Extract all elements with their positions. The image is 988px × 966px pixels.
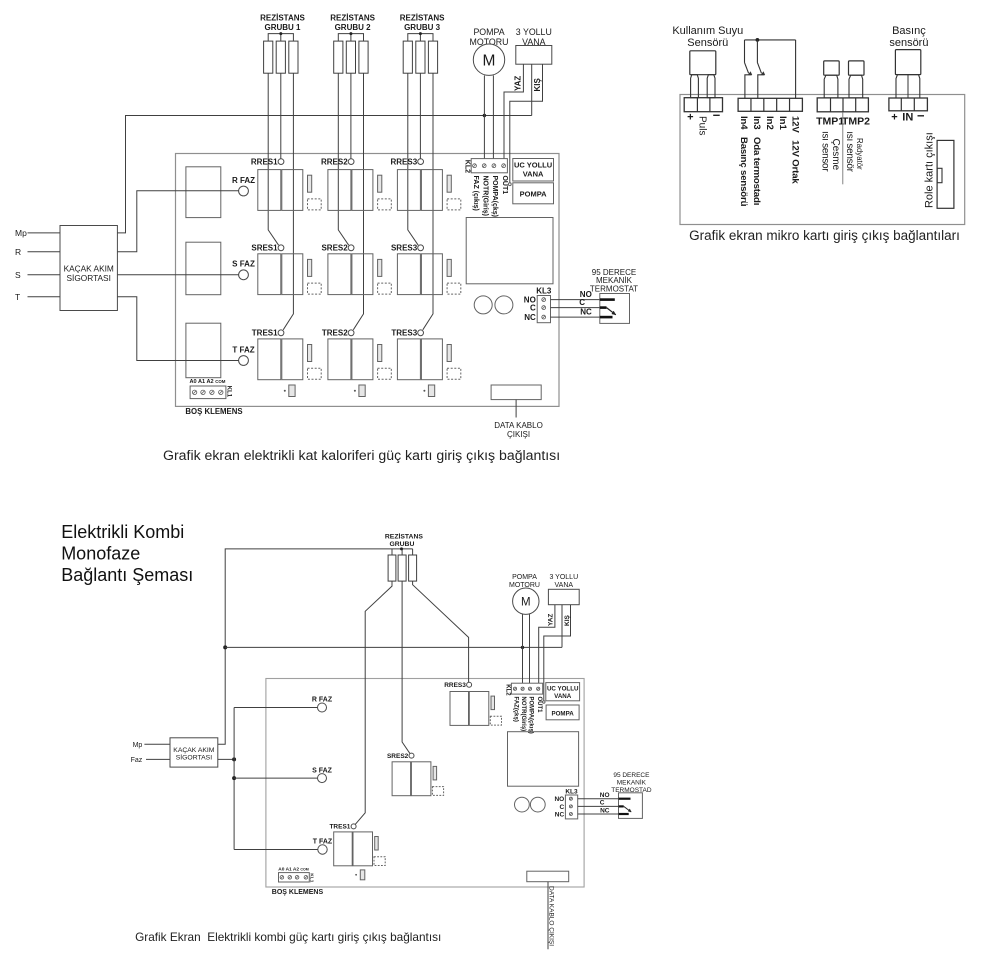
svg-text:YAZ: YAZ bbox=[547, 614, 554, 626]
diode component below TRES1 mono bbox=[360, 870, 365, 880]
connector TMP1 TMP2 bbox=[817, 98, 868, 112]
svg-text:REZİSTANS: REZİSTANS bbox=[400, 14, 445, 23]
terminal R FAZ mono bbox=[318, 703, 327, 712]
relay coil a bbox=[474, 296, 492, 314]
aux terminal mono bbox=[543, 701, 545, 703]
transformer block bbox=[466, 218, 553, 284]
terminal RRES2 bbox=[348, 159, 354, 165]
svg-text:GRUBU 3: GRUBU 3 bbox=[404, 23, 441, 32]
relay TRES2 block a bbox=[328, 339, 351, 380]
mono board outline bbox=[266, 679, 584, 888]
transformer block mono bbox=[508, 732, 579, 787]
relay box UC YOLLU VANA mono bbox=[546, 683, 580, 701]
svg-text:Faz: Faz bbox=[131, 757, 143, 764]
svg-text:NOTR(Giriş): NOTR(Giriş) bbox=[482, 176, 489, 216]
input contactor block R bbox=[186, 167, 221, 218]
svg-text:C: C bbox=[559, 804, 564, 811]
svg-text:SİGORTASI: SİGORTASI bbox=[66, 273, 110, 283]
wire KL3 C to thermostat bbox=[551, 307, 600, 309]
svg-text:Mp: Mp bbox=[133, 742, 143, 749]
svg-text:Bağlantı Şeması: Bağlantı Şeması bbox=[61, 565, 193, 585]
component footprint beside RRES1 bbox=[308, 199, 322, 210]
connector KL3 bbox=[537, 296, 550, 323]
thermostat NO contact mono bbox=[619, 798, 631, 800]
connector KL2 bbox=[471, 159, 507, 173]
terminal TRES1 bbox=[278, 330, 284, 336]
svg-text:M: M bbox=[483, 52, 496, 69]
terminal S FAZ mono bbox=[318, 774, 327, 783]
svg-text:VANA: VANA bbox=[523, 170, 544, 179]
resistor group 2 element a bbox=[334, 41, 343, 73]
wire KL3 NC mono bbox=[578, 813, 619, 815]
connector plus IN minus bbox=[889, 98, 928, 111]
pin label minus bbox=[713, 114, 720, 116]
resistor group 1 element b bbox=[276, 41, 285, 73]
diode component below column 3 bbox=[428, 385, 434, 397]
relay box POMPA bbox=[513, 183, 554, 204]
junction motor neutral mono bbox=[521, 646, 524, 649]
capacitor beside SRES2 mono bbox=[433, 766, 437, 780]
capacitor beside TRES1 bbox=[308, 345, 312, 362]
capacitor beside TRES1 mono bbox=[375, 837, 379, 851]
svg-text:S FAZ: S FAZ bbox=[312, 767, 333, 774]
svg-text:C: C bbox=[600, 800, 605, 807]
relay box UC YOLLU VANA bbox=[513, 159, 554, 182]
terminal TRES2 bbox=[348, 330, 354, 336]
capacitor beside SRES3 bbox=[447, 259, 451, 276]
svg-text:Grafik Ekran Elektrikli kombi: Grafik Ekran Elektrikli kombi güç kartı … bbox=[135, 930, 441, 944]
svg-text:KAÇAK AKIM: KAÇAK AKIM bbox=[173, 747, 215, 754]
svg-text:MEKANİK: MEKANİK bbox=[617, 777, 647, 786]
resistor group 3 element a bbox=[403, 41, 412, 73]
terminal SRES1 bbox=[278, 245, 284, 251]
thermostat switch box bbox=[600, 294, 630, 324]
svg-text:SİGORTASI: SİGORTASI bbox=[176, 753, 212, 762]
relay RRES3 block a mono bbox=[450, 692, 469, 726]
wire to T FAZ mono bbox=[234, 849, 318, 851]
thermostat NC contact mono bbox=[619, 813, 629, 815]
svg-text:KL3: KL3 bbox=[536, 286, 552, 295]
svg-text:RRES3: RRES3 bbox=[391, 157, 418, 166]
svg-text:YAZ: YAZ bbox=[514, 76, 523, 91]
wire to S FAZ mono bbox=[234, 777, 318, 779]
wire input T bbox=[28, 296, 61, 298]
mono resistor a bbox=[388, 555, 396, 581]
capacitor beside RRES1 bbox=[308, 175, 312, 192]
svg-text:TRES1: TRES1 bbox=[329, 824, 350, 831]
resistor group 1 element a bbox=[264, 41, 273, 73]
svg-text:POMPA: POMPA bbox=[473, 27, 504, 37]
svg-text:KL1: KL1 bbox=[309, 873, 315, 882]
svg-text:R FAZ: R FAZ bbox=[232, 176, 255, 185]
wire resistor c to RRES3 bbox=[413, 581, 469, 682]
capacitor beside TRES3 bbox=[447, 345, 451, 362]
svg-text:TERMOSTAT: TERMOSTAT bbox=[590, 284, 638, 293]
wire KL3 NO mono bbox=[578, 798, 619, 800]
svg-text:ÇIKIŞI: ÇIKIŞI bbox=[507, 430, 530, 439]
capacitor beside TRES2 bbox=[378, 345, 382, 362]
svg-text:KL2: KL2 bbox=[505, 684, 511, 696]
relay SRES2 block a mono bbox=[392, 762, 411, 796]
component footprint beside TRES3 bbox=[447, 368, 461, 379]
component footprint beside RRES2 bbox=[378, 199, 392, 210]
resistor group 1 top bracket wire bbox=[268, 34, 293, 42]
sensor plug TMP2 bbox=[849, 61, 865, 75]
svg-text:Grafik ekran elektrikli kat ka: Grafik ekran elektrikli kat kaloriferi g… bbox=[163, 447, 560, 463]
relay RRES2 block a bbox=[328, 170, 351, 211]
svg-text:Basınç: Basınç bbox=[892, 25, 926, 37]
component footprint beside RRES3 bbox=[447, 199, 461, 210]
breaker KACAK AKIM SIGORTASI mono bbox=[170, 738, 218, 767]
svg-text:FAZ (çıkış): FAZ (çıkış) bbox=[472, 176, 479, 211]
svg-text:RRES3: RRES3 bbox=[444, 682, 466, 689]
valve 3 yollu vana bbox=[516, 46, 552, 65]
svg-text:SRES3: SRES3 bbox=[391, 244, 418, 253]
component footprint beside TRES1 bbox=[308, 368, 322, 379]
connector KL3 mono bbox=[565, 795, 577, 819]
resistor group 3 element b bbox=[416, 41, 425, 73]
relay SRES2 block b bbox=[352, 254, 373, 295]
terminal SRES2 bbox=[348, 245, 354, 251]
relay SRES2 block a bbox=[328, 254, 351, 295]
thermostat NO contact bbox=[600, 298, 615, 301]
wire 12V side of loop bbox=[795, 40, 797, 99]
svg-text:VANA: VANA bbox=[555, 582, 574, 589]
relay coil b bbox=[495, 296, 513, 314]
svg-text:TRES1: TRES1 bbox=[252, 329, 278, 338]
input contactor block S bbox=[186, 242, 221, 295]
thermostat C contact and blade mono bbox=[619, 805, 624, 807]
component footprint beside SRES1 bbox=[308, 283, 322, 294]
svg-text:S: S bbox=[15, 270, 21, 280]
svg-text:C: C bbox=[530, 303, 536, 312]
svg-text:In2: In2 bbox=[764, 116, 775, 130]
svg-text:NO: NO bbox=[554, 796, 564, 803]
terminal RRES1 bbox=[278, 159, 284, 165]
svg-text:Monofaze: Monofaze bbox=[61, 543, 140, 563]
svg-text:Mp: Mp bbox=[15, 228, 27, 238]
thermostat C contact and blade bbox=[600, 306, 607, 309]
relay RRES1 block a bbox=[258, 170, 281, 211]
resistor group 2 element c bbox=[359, 41, 368, 73]
junction faz distribution 2 bbox=[232, 776, 236, 780]
relay TRES1 block a mono bbox=[334, 832, 353, 866]
svg-text:BOŞ KLEMENS: BOŞ KLEMENS bbox=[185, 407, 242, 416]
terminal RRES3 bbox=[418, 159, 424, 165]
wire group 2 left to SRES2 bbox=[338, 73, 348, 245]
svg-text:Radyatör: Radyatör bbox=[855, 138, 864, 170]
wire KL3 NC to thermostat bbox=[551, 316, 600, 318]
diode component below column 1 bbox=[289, 385, 295, 397]
switch In3 bbox=[756, 40, 758, 63]
micro card board outline bbox=[680, 95, 965, 225]
mono resistor b bbox=[398, 555, 406, 581]
relay SRES2 block b mono bbox=[411, 762, 431, 796]
resistor group 2 element b bbox=[346, 41, 355, 73]
wire valve KIS to aux terminal bbox=[510, 64, 543, 183]
component footprint beside TRES2 bbox=[378, 368, 392, 379]
svg-text:POMPA: POMPA bbox=[512, 574, 537, 581]
svg-text:GRUBU 1: GRUBU 1 bbox=[264, 23, 301, 32]
relay SRES3 block b bbox=[421, 254, 442, 295]
relay RRES1 block b bbox=[282, 170, 303, 211]
svg-text:POMPA(çkış): POMPA(çkış) bbox=[528, 697, 534, 734]
svg-text:SRES2: SRES2 bbox=[321, 244, 348, 253]
wire group 1 right to TRES1 bbox=[283, 73, 293, 330]
wire group 2 right to TRES2 bbox=[353, 73, 363, 330]
input contactor block T bbox=[186, 323, 221, 378]
wire T phase to T FAZ bbox=[117, 297, 238, 361]
terminal TRES3 bbox=[418, 330, 424, 336]
svg-text:TMP2: TMP2 bbox=[842, 116, 870, 128]
wire R phase to R FAZ bbox=[117, 191, 238, 252]
connector role karti cikisi bbox=[937, 140, 954, 208]
rezistans grubu stubs bbox=[391, 549, 393, 555]
svg-text:KIŞ: KIŞ bbox=[564, 615, 571, 627]
svg-text:Role kartı çıkışı: Role kartı çıkışı bbox=[923, 132, 935, 208]
svg-text:UC YOLLU: UC YOLLU bbox=[547, 685, 579, 692]
capacitor beside SRES1 bbox=[308, 259, 312, 276]
wire input Mp bbox=[28, 232, 61, 234]
svg-text:NC: NC bbox=[600, 807, 610, 814]
wire group 1 left to SRES1 bbox=[268, 73, 278, 245]
svg-text:Grafik ekran mikro kartı giriş: Grafik ekran mikro kartı giriş çıkış bağ… bbox=[689, 228, 960, 243]
svg-text:+: + bbox=[687, 111, 693, 123]
capacitor beside RRES3 mono bbox=[491, 696, 495, 710]
svg-text:+: + bbox=[891, 111, 897, 123]
svg-text:Sensörü: Sensörü bbox=[687, 37, 728, 49]
svg-text:95 DERECE: 95 DERECE bbox=[613, 772, 650, 779]
relay TRES2 block b bbox=[352, 339, 373, 380]
junction trunk neutral bbox=[223, 645, 227, 649]
wire Mp output trunk to neutral rail bbox=[117, 116, 531, 233]
terminal T FAZ bbox=[239, 356, 249, 366]
thermostat NC contact bbox=[600, 316, 613, 319]
svg-text:DATA KABLO ÇIKIŞI: DATA KABLO ÇIKIŞI bbox=[548, 886, 555, 946]
relay TRES1 block b mono bbox=[353, 832, 373, 866]
svg-text:POMPA(çkş): POMPA(çkş) bbox=[491, 176, 498, 218]
junction switch loop bbox=[756, 38, 760, 42]
wire Mp input mono bbox=[144, 743, 170, 745]
motor M2 pump mono bbox=[513, 588, 539, 614]
valve mono 3 yollu vana bbox=[548, 589, 579, 604]
switch In4 bbox=[744, 40, 746, 63]
wire group 3 left to SRES3 bbox=[408, 73, 418, 245]
resistor group 3 top bracket wire bbox=[408, 34, 433, 42]
mono resistor c bbox=[409, 555, 417, 581]
relay SRES1 block a bbox=[258, 254, 281, 295]
resistor group 2 top bracket wire bbox=[338, 34, 363, 42]
power card board outline bbox=[176, 154, 560, 407]
svg-text:OUT1: OUT1 bbox=[501, 176, 508, 195]
relay TRES3 block b bbox=[421, 339, 442, 380]
svg-text:NO: NO bbox=[600, 792, 610, 799]
svg-text:KIŞ: KIŞ bbox=[533, 78, 542, 92]
component footprint beside SRES2 mono bbox=[432, 787, 443, 796]
wire trunk to rezistans grubu rail bbox=[218, 549, 413, 744]
svg-text:3 YOLLU: 3 YOLLU bbox=[516, 27, 552, 37]
relay SRES3 block a bbox=[397, 254, 420, 295]
wire Faz input mono bbox=[146, 758, 170, 760]
svg-text:SRES2: SRES2 bbox=[387, 753, 409, 760]
svg-text:TRES2: TRES2 bbox=[322, 329, 348, 338]
svg-text:NC: NC bbox=[555, 811, 565, 818]
connector Puls bbox=[684, 98, 722, 112]
svg-text:REZİSTANS: REZİSTANS bbox=[330, 14, 375, 23]
resistor group 3 junction bbox=[419, 32, 422, 35]
svg-text:ısı sensör: ısı sensör bbox=[844, 131, 855, 172]
component footprint beside TRES1 mono bbox=[374, 857, 385, 866]
pin label minus IN bbox=[918, 115, 925, 117]
wire switch loop top rail bbox=[745, 39, 796, 41]
terminal T FAZ mono bbox=[318, 845, 327, 854]
svg-text:Puls: Puls bbox=[697, 116, 708, 135]
data cable connector bbox=[491, 385, 541, 400]
terminal SRES3 bbox=[418, 245, 424, 251]
svg-text:KL1: KL1 bbox=[225, 386, 231, 398]
wire group 1 center to RRES1 bbox=[280, 73, 282, 159]
svg-text:Kullanım Suyu: Kullanım Suyu bbox=[672, 25, 743, 37]
relay box POMPA mono bbox=[546, 705, 579, 720]
wire to R FAZ mono bbox=[234, 707, 318, 709]
svg-text:POMPA: POMPA bbox=[551, 711, 574, 718]
svg-text:VANA: VANA bbox=[554, 693, 572, 700]
junction faz distribution 1 bbox=[232, 757, 236, 761]
svg-text:NOTR(Giriş): NOTR(Giriş) bbox=[520, 697, 526, 732]
terminal TRES1 mono bbox=[351, 824, 356, 829]
terminal R FAZ bbox=[239, 186, 249, 196]
wire group 2 center to RRES2 bbox=[350, 73, 352, 159]
wire valve YAZ to OUT1 bbox=[504, 64, 523, 159]
wire mono valve common to neutral bbox=[561, 605, 563, 648]
terminal S FAZ bbox=[239, 270, 249, 280]
wire valve common to neutral rail bbox=[531, 64, 533, 115]
sensor basinc plug bbox=[895, 50, 920, 75]
svg-text:POMPA: POMPA bbox=[520, 189, 548, 198]
svg-text:R FAZ: R FAZ bbox=[312, 697, 333, 704]
svg-text:DATA KABLO: DATA KABLO bbox=[494, 421, 543, 430]
resistor group 1 element c bbox=[289, 41, 298, 73]
junction neutral rail / pump motor bbox=[483, 114, 486, 117]
svg-text:GRUBU: GRUBU bbox=[389, 541, 414, 548]
svg-text:Çesme: Çesme bbox=[830, 139, 841, 171]
svg-text:KL2: KL2 bbox=[464, 160, 471, 173]
svg-text:GRUBU 2: GRUBU 2 bbox=[335, 23, 372, 32]
component footprint beside SRES2 bbox=[378, 283, 392, 294]
wire mono valve YAZ to OUT1 bbox=[539, 605, 555, 684]
connector KL1 bbox=[190, 386, 226, 399]
connector KL2 mono bbox=[511, 683, 542, 694]
resistor group 3 element c bbox=[428, 41, 437, 73]
svg-text:IN: IN bbox=[902, 112, 913, 124]
svg-text:SRES1: SRES1 bbox=[251, 244, 278, 253]
svg-text:KL3: KL3 bbox=[565, 788, 578, 795]
svg-text:sensörü: sensörü bbox=[889, 37, 928, 49]
svg-text:BOŞ KLEMENS: BOŞ KLEMENS bbox=[272, 889, 324, 896]
wire group 3 center to RRES3 bbox=[419, 73, 421, 159]
svg-text:R: R bbox=[15, 247, 21, 257]
svg-text:OUT1: OUT1 bbox=[536, 697, 542, 714]
wire motor to POMPA pin bbox=[492, 75, 494, 158]
wire resistor b to SRES2 bbox=[402, 581, 410, 753]
svg-text:NC: NC bbox=[524, 313, 536, 322]
wire mono valve KIS to aux terminal bbox=[544, 605, 571, 701]
terminal RRES3 mono bbox=[467, 682, 472, 687]
wire resistor a to TRES1 bbox=[355, 581, 392, 824]
svg-text:T: T bbox=[15, 292, 20, 302]
relay TRES3 block a bbox=[397, 339, 420, 380]
relay coil b mono bbox=[530, 797, 545, 812]
wire S phase to S FAZ bbox=[117, 274, 238, 276]
svg-text:FAZ(çkş): FAZ(çkş) bbox=[513, 697, 519, 722]
connector KL1 mono bbox=[279, 873, 310, 882]
svg-text:UC YOLLU: UC YOLLU bbox=[514, 161, 552, 170]
capacitor beside SRES2 bbox=[378, 259, 382, 276]
wire KL3 NO to thermostat bbox=[551, 299, 600, 301]
breaker KACAK AKIM SIGORTASI bbox=[60, 226, 117, 311]
wire input S bbox=[28, 274, 61, 276]
data cable connector mono bbox=[527, 871, 569, 882]
motor M1 pump bbox=[473, 44, 504, 75]
wire motor to NOTR pin bbox=[483, 75, 485, 158]
wire group 3 right to TRES3 bbox=[423, 73, 433, 330]
svg-text:NC: NC bbox=[580, 308, 592, 317]
relay RRES3 block a bbox=[397, 170, 420, 211]
resistor group 1 junction bbox=[279, 32, 282, 35]
wire neutral rail mono bbox=[225, 646, 562, 648]
svg-text:RRES2: RRES2 bbox=[321, 157, 348, 166]
svg-text:S FAZ: S FAZ bbox=[232, 260, 255, 269]
svg-text:Elektrikli Kombi: Elektrikli Kombi bbox=[61, 522, 184, 542]
component footprint beside RRES3 mono bbox=[490, 716, 501, 725]
sensor kullanim suyu plug bbox=[690, 51, 716, 75]
data cable leader mono bbox=[547, 882, 549, 950]
relay RRES3 block b bbox=[421, 170, 442, 211]
svg-text:T FAZ: T FAZ bbox=[313, 839, 333, 846]
wire mono motor to POMPA bbox=[529, 614, 531, 683]
svg-text:In4 Basınç sensörü: In4 Basınç sensörü bbox=[738, 116, 749, 207]
terminal SRES2 mono bbox=[409, 753, 414, 758]
svg-text:In3 Oda termostadı: In3 Oda termostadı bbox=[751, 116, 762, 205]
wire faz distribution riser bbox=[233, 708, 235, 850]
svg-text:12V 12V Ortak: 12V 12V Ortak bbox=[790, 116, 801, 184]
connector In4..12V bbox=[738, 98, 802, 111]
wire KL3 C mono bbox=[578, 805, 619, 807]
junction rezistans bracket bbox=[400, 547, 403, 550]
wire Faz to distribution bbox=[218, 758, 234, 760]
thermostat switch box mono bbox=[619, 793, 643, 819]
relay TRES1 block a bbox=[258, 339, 281, 380]
svg-text:TMP1: TMP1 bbox=[816, 116, 844, 128]
relay coil a mono bbox=[515, 797, 530, 812]
divider TMP1/TMP2 bbox=[842, 113, 844, 185]
svg-text:REZİSTANS: REZİSTANS bbox=[260, 14, 305, 23]
relay TRES1 block b bbox=[282, 339, 303, 380]
wire mono motor to NOTR bbox=[522, 614, 524, 683]
svg-text:ısı sensor: ısı sensor bbox=[820, 131, 831, 172]
svg-text:RRES1: RRES1 bbox=[251, 157, 278, 166]
aux terminal below OUT1 bbox=[508, 183, 511, 186]
svg-text:C: C bbox=[579, 298, 585, 307]
svg-text:M: M bbox=[521, 596, 531, 608]
svg-text:3 YOLLU: 3 YOLLU bbox=[549, 574, 578, 581]
svg-text:REZİSTANS: REZİSTANS bbox=[385, 533, 423, 541]
capacitor beside RRES2 bbox=[378, 175, 382, 192]
svg-text:In1: In1 bbox=[777, 116, 788, 131]
svg-text:KAÇAK AKIM: KAÇAK AKIM bbox=[64, 264, 114, 274]
relay SRES1 block b bbox=[282, 254, 303, 295]
resistor group 2 junction bbox=[349, 32, 352, 35]
